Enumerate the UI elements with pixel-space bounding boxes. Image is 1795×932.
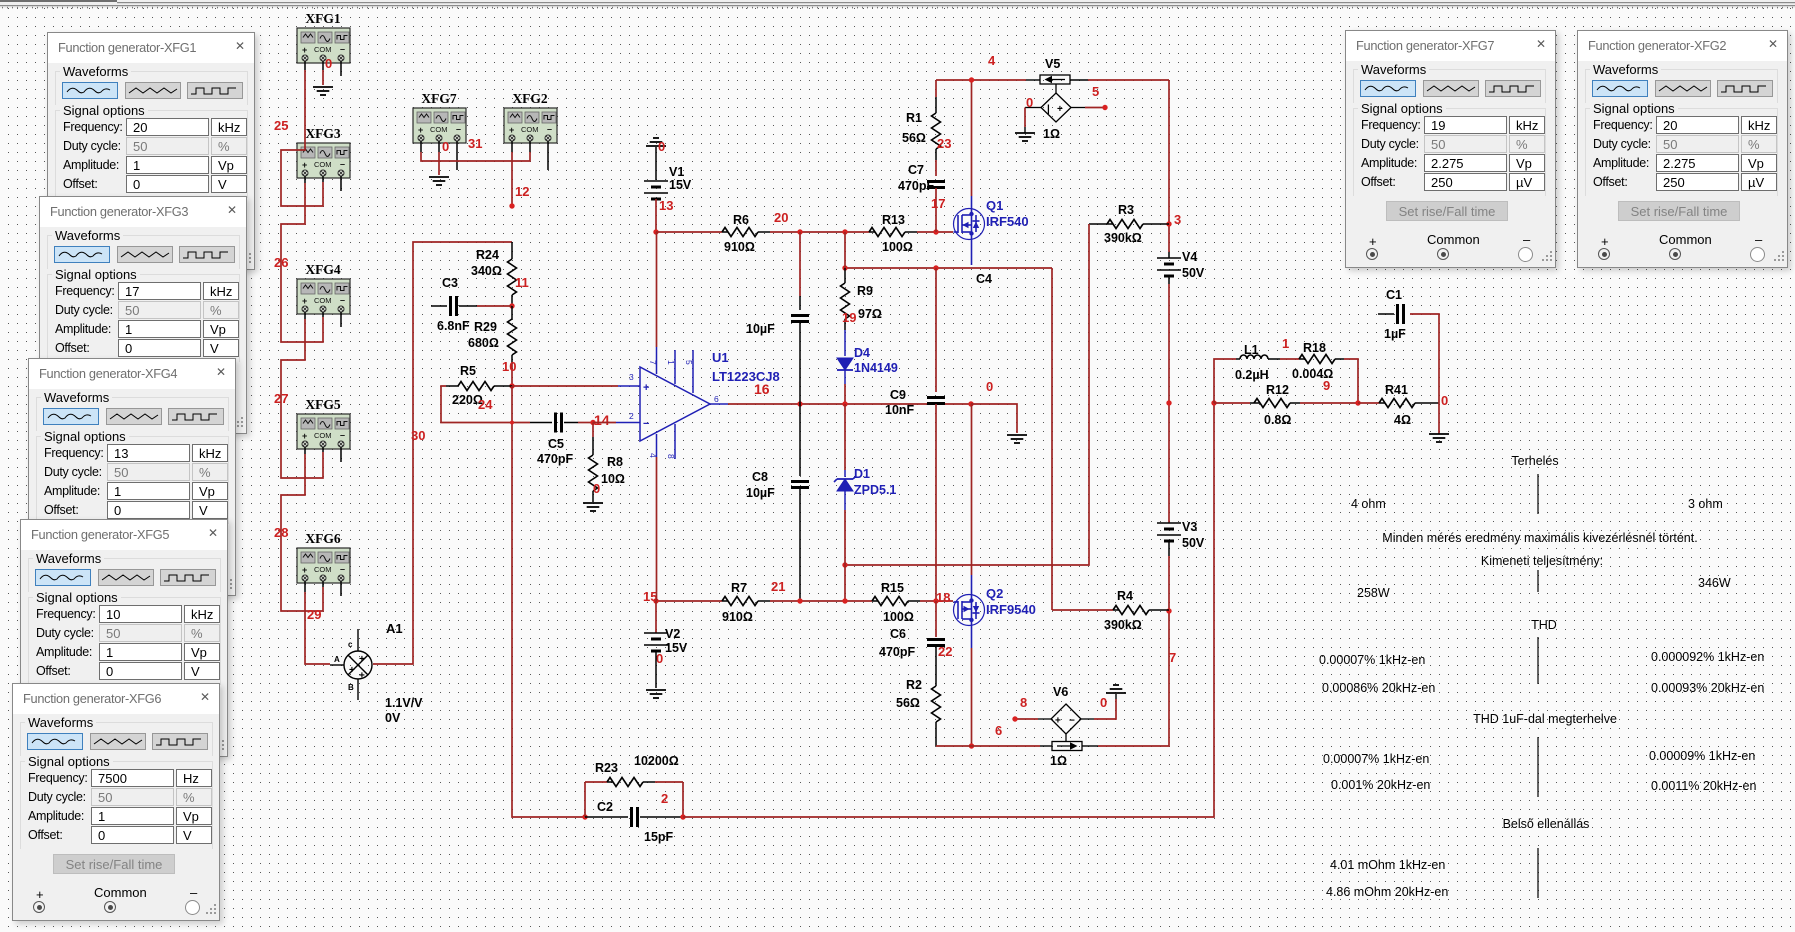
V6 ground stub — [1115, 694, 1117, 699]
Q1 drain lead — [971, 196, 973, 215]
op-amp pin6 lead — [710, 403, 728, 405]
svg-text:0.00009% 1kHz-en: 0.00009% 1kHz-en — [1649, 749, 1755, 763]
resistor R2 — [932, 686, 941, 722]
R4 left pin — [1113, 609, 1119, 611]
V5 ground stub — [1024, 127, 1026, 133]
dialog Function generator-XFG1 — [47, 32, 255, 270]
battery V4 — [1157, 258, 1181, 276]
instrument XFG2 — [504, 108, 557, 143]
svg-text:Terhelés: Terhelés — [1511, 454, 1558, 468]
svg-text:R23: R23 — [595, 761, 618, 775]
ground XFG1 — [313, 87, 333, 95]
R41 right pin — [1415, 402, 1439, 404]
svg-text:29: 29 — [307, 607, 321, 622]
resistor R8 — [589, 455, 598, 491]
svg-text:0.00086% 20kHz-en: 0.00086% 20kHz-en — [1322, 681, 1435, 695]
wire output to ground — [971, 404, 1017, 433]
wire Q1 drain to V+ rail — [971, 80, 973, 196]
svg-text:0.0011% 20kHz-en: 0.0011% 20kHz-en — [1651, 779, 1756, 793]
R9 bottom pin — [844, 319, 846, 330]
divider 1 — [1537, 474, 1539, 514]
svg-text:+: + — [509, 125, 514, 135]
wire D4 to output — [844, 384, 846, 404]
wire net8 — [1015, 718, 1038, 720]
svg-text:27: 27 — [274, 391, 288, 406]
junction R9 top — [842, 265, 847, 270]
battery V3 — [1157, 523, 1181, 541]
transistor Q2 IRF9540 — [954, 595, 985, 626]
wire C9 to lower rail — [935, 404, 937, 601]
wire to C9 — [935, 268, 937, 392]
XFG3 COM stub — [322, 176, 324, 182]
svg-text:C3: C3 — [442, 276, 458, 290]
XFG1 terminal stubs — [304, 61, 306, 70]
svg-text:56Ω: 56Ω — [896, 696, 920, 710]
svg-text:10: 10 — [502, 359, 516, 374]
svg-text:R41: R41 — [1385, 383, 1408, 397]
wire rail down to R4 — [1051, 268, 1053, 610]
svg-text:R1: R1 — [906, 111, 922, 125]
svg-text:XFG2: XFG2 — [512, 91, 547, 106]
wire R3 left to net565 — [845, 224, 1089, 565]
wire C7 to rail — [935, 188, 937, 232]
junction R3 right — [1166, 221, 1171, 226]
svg-text:470pF: 470pF — [898, 179, 934, 193]
wire R6 to R13 — [770, 231, 869, 233]
ground R41 — [1429, 434, 1449, 442]
svg-text:7: 7 — [1169, 650, 1176, 665]
dialog Function generator-XFG3 — [39, 196, 247, 434]
V5 diamond-box link — [1055, 84, 1057, 93]
wire L1 to R18 — [1280, 358, 1299, 360]
capacitor C3 — [449, 296, 452, 316]
svg-text:XFG1: XFG1 — [305, 11, 340, 26]
Q2 drain lead — [971, 575, 973, 601]
svg-text:D1: D1 — [854, 467, 870, 481]
wire bottom rail to V6 box — [936, 745, 1040, 747]
svg-text:R2: R2 — [906, 678, 922, 692]
R15 right pin — [908, 600, 920, 602]
Q2 source lead — [971, 619, 973, 648]
svg-text:R15: R15 — [881, 581, 904, 595]
svg-text:4: 4 — [988, 53, 996, 68]
wire net30 A1 out to R24 — [373, 242, 512, 664]
svg-text:910Ω: 910Ω — [722, 610, 753, 624]
svg-text:–: – — [456, 124, 461, 134]
R23 right riser — [655, 781, 683, 783]
svg-text:V1: V1 — [669, 165, 684, 179]
svg-text:C9: C9 — [890, 388, 906, 402]
svg-text:THD: THD — [1531, 618, 1557, 632]
svg-text:–: – — [340, 564, 345, 574]
svg-text:–: – — [340, 295, 345, 305]
svg-text:0: 0 — [656, 651, 663, 666]
junction net8 end — [1012, 716, 1017, 721]
wire up to C1 — [1410, 314, 1439, 403]
R23 left pin — [607, 781, 613, 783]
R23 right pin — [643, 781, 655, 783]
instrument XFG4 — [297, 279, 350, 314]
svg-text:–: – — [340, 44, 345, 54]
instrument XFG3 — [297, 143, 350, 178]
svg-text:COM: COM — [430, 125, 448, 134]
svg-text:6.8nF: 6.8nF — [437, 319, 470, 333]
junction net15 — [653, 598, 658, 603]
R3 left pin — [1089, 223, 1113, 225]
op-amp pin1 — [674, 350, 676, 384]
wire output to D1 — [844, 404, 846, 470]
svg-text:0.00007% 1kHz-en: 0.00007% 1kHz-en — [1319, 653, 1425, 667]
junction R9 branch top — [842, 229, 847, 234]
svg-text:C4: C4 — [976, 272, 992, 286]
dialog Function generator-XFG6 — [12, 683, 220, 921]
wire V5 to V4 column — [1088, 79, 1169, 81]
capacitor C5 — [554, 413, 557, 433]
svg-text:+: + — [302, 431, 307, 441]
svg-text:Q2: Q2 — [986, 586, 1003, 601]
wire V+ rail — [936, 79, 1026, 81]
wire V6 to ground — [1094, 699, 1116, 719]
svg-text:R9: R9 — [857, 284, 873, 298]
svg-text:+: + — [302, 565, 307, 575]
svg-text:0: 0 — [593, 481, 600, 496]
wire node10 down to C2 — [512, 386, 585, 817]
svg-text:4.01 mOhm 1kHz-en: 4.01 mOhm 1kHz-en — [1330, 858, 1445, 872]
instrument XFG5 — [297, 414, 350, 449]
svg-text:4Ω: 4Ω — [1394, 413, 1411, 427]
svg-text:470pF: 470pF — [537, 452, 573, 466]
svg-text:R5: R5 — [460, 364, 476, 378]
junction Q2 source rail — [969, 743, 974, 748]
top toolbar strip — [0, 0, 1795, 8]
A1 pin letters — [334, 640, 354, 692]
svg-text:346W: 346W — [1698, 576, 1731, 590]
dialog Function generator-XFG5 — [20, 519, 228, 757]
wire R41 to ground — [1438, 403, 1440, 434]
svg-text:C2: C2 — [597, 800, 613, 814]
svg-text:1Ω: 1Ω — [1050, 754, 1067, 768]
wire top rail to R1 — [935, 80, 937, 97]
svg-text:2: 2 — [661, 791, 668, 806]
resistor R5 — [458, 382, 494, 391]
svg-text:R7: R7 — [731, 581, 747, 595]
junction net12 end — [509, 203, 514, 208]
resistor R7 — [722, 597, 758, 606]
svg-text:910Ω: 910Ω — [724, 240, 755, 254]
svg-text:V4: V4 — [1182, 250, 1197, 264]
diode D1 ZPD5.1 — [834, 476, 856, 491]
svg-text:24: 24 — [478, 397, 493, 412]
svg-text:R24: R24 — [476, 248, 499, 262]
V6 left pin — [1038, 718, 1051, 720]
svg-text:17: 17 — [931, 196, 945, 211]
wire R18 to node9 — [1344, 359, 1358, 403]
op-amp pin7 — [656, 347, 658, 374]
R13 right pin — [905, 231, 917, 233]
svg-text:+: + — [359, 654, 365, 665]
R2 bottom pin — [935, 722, 937, 746]
svg-text:0: 0 — [325, 56, 332, 71]
C3 right pin — [459, 305, 477, 307]
svg-text:D4: D4 — [854, 346, 870, 360]
svg-text:14: 14 — [594, 412, 610, 428]
R4 right pin — [1149, 609, 1169, 611]
svg-text:50V: 50V — [1182, 266, 1205, 280]
wire midpoint to R12 — [1214, 402, 1250, 404]
A1 pin C — [357, 629, 359, 651]
svg-text:97Ω: 97Ω — [858, 307, 882, 321]
wire feedback to supply midpoint — [683, 403, 1214, 817]
wire net26 XFG3+ to XFG4 COM — [281, 183, 323, 342]
Q1 source lead — [971, 233, 973, 265]
wire R12 to node9 — [1300, 402, 1358, 404]
L1 left pin — [1236, 358, 1240, 360]
V5 left pin — [1025, 107, 1041, 109]
R15 left pin — [872, 600, 878, 602]
R18 right pin — [1335, 358, 1344, 360]
XFG6 terminal stubs — [304, 581, 306, 592]
R7 right pin — [758, 600, 770, 602]
XFG7 terminal stubs — [420, 141, 422, 152]
svg-text:L1: L1 — [1244, 343, 1259, 357]
svg-text:1µF: 1µF — [1384, 327, 1406, 341]
R6 right pin — [758, 231, 770, 233]
svg-text:6: 6 — [714, 394, 719, 404]
resistor R12 — [1254, 399, 1290, 408]
svg-text:1.1V/V: 1.1V/V — [385, 696, 423, 710]
junction net565 — [842, 562, 847, 567]
svg-text:Minden mérés eredmény maximáli: Minden mérés eredmény maximális kivezérl… — [1382, 531, 1697, 545]
wire V5 to ground — [1024, 108, 1026, 128]
R41 left pin — [1379, 402, 1385, 404]
capacitor C9 — [927, 396, 945, 399]
op-amp pin4 — [656, 434, 658, 457]
junction C5 cross — [510, 421, 514, 425]
svg-text:+: + — [302, 45, 307, 55]
C5 right pin — [564, 422, 578, 424]
svg-text:9: 9 — [1323, 378, 1330, 393]
svg-text:0: 0 — [1026, 95, 1033, 110]
wire R15 to Q2 gate — [920, 600, 953, 602]
wire R29 to node10 — [511, 364, 513, 386]
XFG3 terminal stubs — [304, 176, 306, 183]
svg-text:R8: R8 — [607, 455, 623, 469]
inductor L1 — [1240, 355, 1268, 359]
svg-text:258W: 258W — [1357, 586, 1390, 600]
wire V3 to R4 — [1168, 556, 1170, 611]
svg-text:0V: 0V — [385, 711, 401, 725]
resistor R4 — [1113, 606, 1149, 615]
junction C8 mid — [797, 401, 802, 406]
V5 sense box — [1040, 75, 1070, 84]
C2 left pin — [585, 816, 628, 818]
capacitor C6 — [927, 638, 945, 641]
resistor R23 — [607, 778, 643, 787]
junction node11 — [509, 303, 514, 308]
svg-text:C6: C6 — [890, 627, 906, 641]
junction C9 cross — [933, 265, 938, 270]
wire net25 XFG1+ to XFG3 COM — [281, 70, 323, 206]
V5 box right pin — [1070, 79, 1088, 81]
V1 top pin — [655, 147, 657, 180]
svg-text:0: 0 — [442, 139, 449, 154]
wire node9 to R41 — [1358, 402, 1379, 404]
svg-text:ZPD5.1: ZPD5.1 — [854, 483, 896, 497]
divider 5 — [1537, 848, 1539, 898]
wire rail to R9 branch — [844, 232, 846, 268]
junction feedback — [1211, 400, 1216, 405]
R13 left pin — [869, 231, 875, 233]
op-amp U1 triangle — [640, 367, 710, 441]
wire rail to R6 — [656, 231, 722, 233]
wire D1 to lower rail — [844, 510, 846, 601]
svg-text:390kΩ: 390kΩ — [1104, 231, 1142, 245]
wire opamp out to output node — [728, 403, 971, 405]
svg-text:+: + — [349, 665, 355, 676]
V3 bottom pin — [1168, 541, 1170, 556]
junction C2 left — [582, 814, 587, 819]
wire net12 XFG2+ — [511, 152, 513, 206]
ground output — [1007, 435, 1027, 443]
svg-text:0: 0 — [1100, 695, 1107, 710]
svg-text:1: 1 — [666, 360, 676, 365]
L1 right pin — [1268, 358, 1280, 360]
R7 left pin — [722, 600, 728, 602]
svg-text:+: + — [643, 382, 649, 394]
resistor R15 — [872, 597, 908, 606]
C5 left pin — [530, 422, 552, 424]
svg-text:10200Ω: 10200Ω — [634, 754, 679, 768]
wire R1 to C7 — [935, 160, 937, 176]
svg-text:4.86 mOhm 20kHz-en: 4.86 mOhm 20kHz-en — [1326, 885, 1448, 899]
resistor R1 — [932, 113, 941, 149]
svg-text:COM: COM — [314, 431, 332, 440]
capacitor C2 — [630, 807, 633, 827]
svg-text:–: – — [547, 124, 552, 134]
ground V5 — [1015, 133, 1035, 141]
C3 left pin — [431, 305, 447, 307]
wire Q2 drain to output — [971, 404, 973, 575]
svg-text:R29: R29 — [474, 320, 497, 334]
svg-text:2: 2 — [629, 411, 634, 421]
svg-text:V6: V6 — [1053, 685, 1068, 699]
svg-text:0.2µH: 0.2µH — [1235, 368, 1269, 382]
junction C6 top — [933, 598, 938, 603]
svg-text:23: 23 — [937, 136, 951, 151]
wire net29 XFG6+ to A1 — [305, 592, 330, 664]
wire R7 to R15 — [770, 600, 872, 602]
wire net15 to V2 — [655, 601, 657, 633]
svg-text:C1: C1 — [1386, 288, 1402, 302]
R12 right pin — [1290, 402, 1300, 404]
svg-text:+: + — [302, 160, 307, 170]
svg-text:10Ω: 10Ω — [601, 472, 625, 486]
svg-text:6: 6 — [995, 723, 1002, 738]
ground V6 — [1106, 685, 1126, 693]
divider 3 — [1537, 637, 1539, 684]
svg-text:31: 31 — [468, 136, 482, 151]
wire XFG7+ to XFG2 COM — [421, 152, 530, 161]
junction output/ground — [968, 401, 973, 406]
wire net24 R5 left to C5 — [441, 386, 530, 423]
svg-text:30: 30 — [411, 428, 425, 443]
svg-text:+: + — [359, 671, 365, 682]
junction supply midpoint — [1166, 400, 1171, 405]
svg-text:8: 8 — [1020, 695, 1027, 710]
svg-text:1Ω: 1Ω — [1043, 127, 1060, 141]
svg-text:28: 28 — [274, 525, 288, 540]
svg-text:8: 8 — [666, 454, 676, 459]
C8 bottom pin — [799, 488, 801, 601]
XFG5 COM stub — [322, 447, 324, 452]
svg-text:390kΩ: 390kΩ — [1104, 618, 1142, 632]
wire net15 to R7 — [656, 600, 722, 602]
svg-text:15V: 15V — [669, 178, 692, 192]
svg-text:R18: R18 — [1303, 341, 1326, 355]
V2 bottom pin — [655, 651, 657, 688]
svg-text:15V: 15V — [665, 641, 688, 655]
R12 left pin — [1250, 402, 1260, 404]
cap lower pin — [799, 322, 801, 404]
A1 pin B — [357, 679, 359, 700]
svg-text:R12: R12 — [1266, 383, 1289, 397]
V5 diamond source — [1041, 93, 1071, 122]
svg-text:0.000092% 1kHz-en: 0.000092% 1kHz-en — [1651, 650, 1764, 664]
XFG5 terminal stubs — [304, 447, 306, 454]
svg-text:+: + — [1055, 716, 1061, 727]
svg-text:XFG5: XFG5 — [305, 397, 340, 412]
svg-text:18: 18 — [936, 590, 950, 605]
battery V1 — [644, 181, 668, 199]
R29 bottom pin — [511, 355, 513, 364]
junction rail/pin7 — [653, 229, 658, 234]
svg-text:+: + — [418, 125, 423, 135]
svg-text:13: 13 — [659, 198, 673, 213]
C8 upper pin — [799, 404, 801, 476]
svg-text:+: + — [1057, 104, 1063, 115]
R8 bottom pin — [592, 491, 594, 502]
svg-text:22: 22 — [938, 644, 952, 659]
resistor R3 — [1107, 220, 1143, 229]
op-amp pin8 — [674, 424, 676, 459]
op-amp pin numbers — [629, 360, 719, 459]
wire rail to cap — [799, 232, 801, 296]
svg-text:0: 0 — [986, 379, 993, 394]
svg-text:−: − — [643, 418, 649, 430]
svg-text:10µF: 10µF — [746, 322, 775, 336]
instrument XFG6 — [297, 548, 350, 583]
A1 pin A stub — [330, 664, 344, 666]
divider 4 — [1537, 737, 1539, 797]
wire Q2 drain rail — [845, 267, 1052, 269]
wire node14 to R8 — [592, 423, 594, 438]
XFG4 terminal stubs — [304, 312, 306, 319]
junction node14 — [590, 420, 595, 425]
svg-text:11: 11 — [515, 275, 529, 290]
svg-text:Q1: Q1 — [986, 198, 1003, 213]
D1 bottom lead — [844, 491, 846, 510]
wire midpoint to V3 — [1168, 403, 1170, 523]
svg-text:20: 20 — [774, 210, 788, 225]
svg-text:IRF9540: IRF9540 — [986, 602, 1036, 617]
wire V+ down to V4 — [1168, 80, 1170, 252]
svg-text:–: – — [340, 159, 345, 169]
svg-text:1: 1 — [1282, 336, 1289, 351]
svg-text:3: 3 — [629, 372, 634, 382]
junction D4/D1 — [842, 401, 847, 406]
svg-text:V5: V5 — [1045, 57, 1060, 71]
ground V2 — [646, 690, 666, 698]
